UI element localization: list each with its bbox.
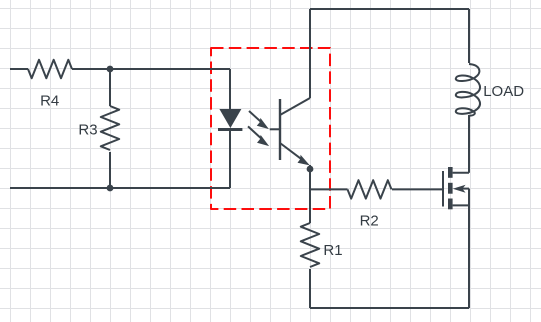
- wire R3 upper lead: [109, 69, 111, 106]
- node junction dot emitter: [307, 166, 314, 173]
- MOSFET M1 channel middle bar: [448, 183, 453, 194]
- wire emitter node vertical: [309, 165, 311, 223]
- MOSFET M1 channel top bar: [448, 167, 453, 178]
- wire top rail: [310, 8, 469, 10]
- MOSFET M1 gate bar: [442, 171, 444, 207]
- MOSFET M1 drain lead: [453, 172, 469, 174]
- svg-text:R2: R2: [360, 213, 379, 230]
- wire R1 to bottom rail: [309, 269, 311, 308]
- wire inductor to MOSFET drain: [468, 115, 470, 173]
- svg-text:R1: R1: [323, 242, 342, 259]
- light arrow 1: [249, 111, 269, 129]
- svg-text:R3: R3: [78, 122, 97, 139]
- MOSFET M1 channel bottom bar: [448, 199, 453, 210]
- wire LED anode lead: [229, 69, 231, 109]
- wire collector to top rail: [309, 9, 311, 98]
- phototransistor Q1 collector diagonal: [280, 98, 310, 115]
- wire LED cathode lead: [229, 131, 231, 188]
- phototransistor Q1 emitter diagonal: [280, 143, 301, 159]
- MOSFET M1 body arrowhead: [453, 185, 466, 193]
- svg-text:LOAD: LOAD: [483, 83, 524, 100]
- phototransistor Q1 emitter arrowhead: [298, 155, 310, 166]
- LED D1 triangle: [219, 109, 241, 128]
- node junction dot top: [107, 66, 114, 73]
- node junction dot bottom: [107, 185, 114, 192]
- wire node to R2: [310, 188, 348, 190]
- inductor LOAD coil: [456, 64, 480, 116]
- phototransistor Q1 base bar: [279, 99, 281, 160]
- LED D1 cathode bar: [218, 128, 242, 131]
- wire bottom-left return: [10, 187, 230, 189]
- wire bottom rail: [310, 307, 469, 309]
- resistor R3: [101, 106, 119, 150]
- wire bottom rail up to MOSFET source and body: [468, 189, 470, 308]
- wire left input to R4: [10, 68, 28, 70]
- wire R4 to LED anode corner: [72, 68, 230, 70]
- wire top rail down to inductor: [468, 9, 470, 63]
- resistor R2: [348, 180, 392, 198]
- MOSFET M1 body lead: [462, 188, 469, 190]
- resistor R1: [301, 223, 319, 267]
- wire R3 lower lead: [109, 152, 111, 188]
- light arrow 2: [248, 126, 269, 146]
- wire R2 to gate: [392, 188, 443, 190]
- MOSFET M1 source lead: [453, 204, 469, 206]
- resistor R4: [28, 60, 72, 78]
- red dashed optocoupler boundary box: [211, 48, 330, 209]
- svg-text:R4: R4: [40, 93, 59, 110]
- phototransistor Q1 base stub: [270, 128, 280, 130]
